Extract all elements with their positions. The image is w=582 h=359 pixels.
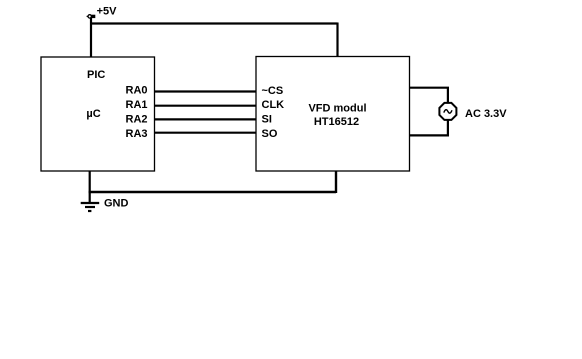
microcontroller U1 box (PIC): [41, 57, 155, 171]
wire U2 right top to AC source: [410, 88, 448, 103]
svg-text:RA2: RA2: [126, 113, 148, 125]
wire AC source bottom to U2 right: [410, 120, 448, 136]
wire RA0 to ~CS: [155, 90, 257, 92]
svg-text:SO: SO: [262, 128, 278, 140]
svg-text:+5V: +5V: [97, 6, 118, 18]
svg-text:SI: SI: [262, 113, 272, 125]
power terminal +5V: [87, 15, 96, 18]
wire RA1 to CLK: [155, 105, 257, 107]
svg-text:VFD modul: VFD modul: [308, 102, 366, 114]
ground symbol: [81, 203, 100, 211]
svg-text:PIC: PIC: [87, 69, 105, 81]
svg-text:GND: GND: [104, 197, 129, 209]
wire GND riser to U2 bottom: [335, 171, 337, 193]
wire U1 bottom to ground: [89, 171, 91, 203]
wire +5V drop to U2 top: [336, 23, 338, 57]
svg-text:RA1: RA1: [126, 99, 148, 111]
wire GND horizontal bus: [89, 191, 336, 193]
wire +5V horizontal bus: [90, 22, 338, 24]
svg-text:RA3: RA3: [126, 128, 148, 140]
svg-text:~CS: ~CS: [262, 85, 284, 97]
svg-text:HT16512: HT16512: [314, 116, 359, 128]
VFD module U2 box (HT16512): [256, 57, 410, 172]
svg-text:CLK: CLK: [262, 99, 285, 111]
svg-text:AC 3.3V: AC 3.3V: [465, 108, 507, 120]
wire +5V vertical drop to U1 top: [90, 18, 92, 58]
svg-text:µC: µC: [86, 108, 100, 120]
wire RA2 to SI: [155, 118, 257, 120]
wire RA3 to SO: [155, 132, 257, 134]
AC source V1 (octagon circle with sine): [439, 103, 456, 120]
svg-text:RA0: RA0: [126, 84, 148, 96]
